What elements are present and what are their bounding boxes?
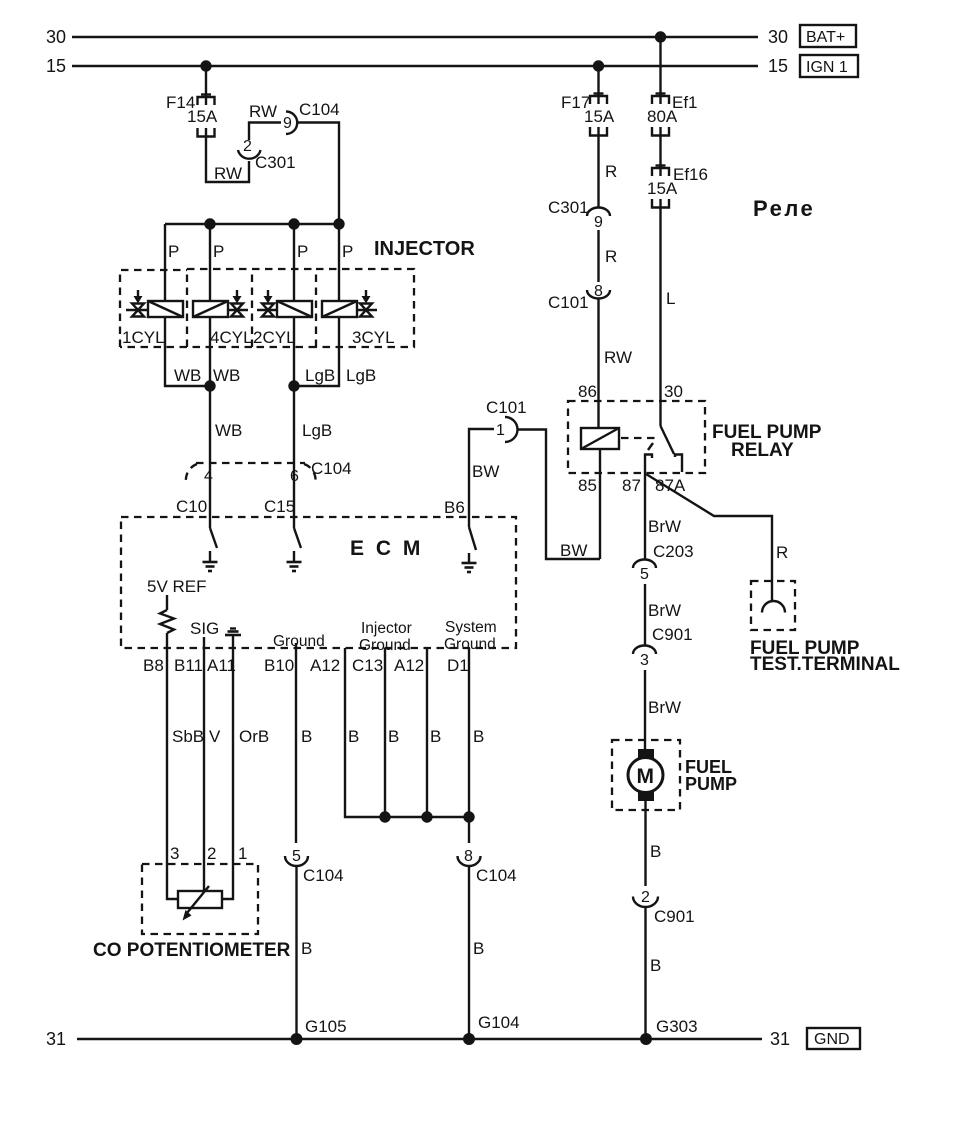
FUEL PUMP title [685,757,737,794]
svg-text:B: B [301,727,312,746]
svg-text:BW: BW [472,462,499,481]
svg-text:BrW: BrW [648,517,681,536]
svg-text:Ground: Ground [273,633,325,650]
wire bus to 3CYL, label P [339,224,353,301]
connector C104 pin 9 [283,100,340,134]
svg-text:P: P [168,242,179,261]
junction 2CYL [288,218,299,229]
svg-text:B6: B6 [444,498,465,517]
svg-text:30: 30 [664,382,683,401]
wire D1 (B) down through ground bus [468,648,470,843]
svg-text:R: R [605,247,617,266]
svg-text:A12: A12 [310,656,340,675]
svg-text:15: 15 [768,56,788,76]
svg-text:15A: 15A [187,107,218,126]
wire C104-8 to G104 [468,866,470,1039]
wire C901-3 to fuel pump, label BrW [645,670,681,751]
svg-text:G105: G105 [305,1017,347,1036]
injector 4CYL nozzle valve [228,290,248,317]
fuse Ef1 80A [647,93,698,136]
relay contact 87 terminal [645,455,652,474]
injector 1CYL dashed box [120,270,187,347]
ground (inside ECM, C15) [287,551,302,571]
svg-text:15: 15 [46,56,66,76]
svg-text:BrW: BrW [648,601,681,620]
svg-text:OrB: OrB [239,727,269,746]
wire rail15 to fuse F17 [597,66,599,104]
svg-text:A12: A12 [394,656,424,675]
svg-text:1CYL: 1CYL [122,328,165,347]
svg-text:RELAY: RELAY [731,440,794,461]
wire A12 (B) to injector ground bus [345,648,385,817]
wire SIG to pin B11 [203,637,205,648]
test terminal contact [762,601,785,613]
junction on rail 15 at F14 [200,60,211,71]
fuel pump relay dashed box [568,401,705,473]
switch at pin C10 [210,517,217,548]
wire C104-9 to injector supply bus [298,123,340,225]
svg-text:31: 31 [770,1029,790,1049]
injector ground bus [385,816,469,818]
wire B11 (V) to potentiometer pin 2 [203,648,205,891]
svg-text:B: B [650,956,661,975]
relay actuator dashed link [621,438,659,450]
wire C13 (B) to injector ground bus [384,648,386,817]
svg-text:WB: WB [213,366,240,385]
svg-text:C901: C901 [652,625,693,644]
injector 2CYL nozzle valve [257,290,277,317]
injector 1CYL nozzle valve [126,290,147,317]
svg-text:BW: BW [560,541,587,560]
svg-text:LgB: LgB [346,366,376,385]
wire rail30 to fuse Ef1 [659,37,661,104]
svg-text:30: 30 [768,27,788,47]
svg-text:C301: C301 [548,198,589,217]
injector 4CYL dashed box [187,269,252,347]
svg-text:C104: C104 [311,459,352,478]
FUEL PUMP TEST.TERMINAL title [750,638,900,675]
svg-text:CO POTENTIOMETER: CO POTENTIOMETER [93,940,291,961]
svg-text:D1: D1 [447,656,469,675]
svg-text:B: B [430,727,441,746]
resistor 5V REF [160,595,174,648]
svg-text:5: 5 [292,848,301,865]
connector C104 pin 5 [285,848,344,885]
junction WB [204,380,215,391]
svg-text:IGN 1: IGN 1 [806,59,848,76]
node 30 rail [46,27,788,47]
svg-text:C104: C104 [299,100,340,119]
svg-text:2CYL: 2CYL [253,328,296,347]
stub at pin B10 [295,643,297,648]
svg-text:PUMP: PUMP [685,774,737,794]
svg-text:B8: B8 [143,656,164,675]
svg-text:R: R [776,543,788,562]
wire Ef16 to relay pin 30, label L [661,207,676,426]
wire Ef1 to Ef16 [659,135,661,176]
svg-text:LgB: LgB [305,366,335,385]
svg-text:4: 4 [204,468,213,485]
switch at pin C15 [294,517,301,548]
wire bus to 4CYL, label P [210,224,224,301]
node 15 rail [46,56,788,76]
wire C101-1 to relay pin 85, label BW [517,430,600,561]
svg-text:RW: RW [214,164,242,183]
relay contact 87A terminal [675,455,682,473]
svg-text:INJECTOR: INJECTOR [374,238,475,260]
svg-text:P: P [213,242,224,261]
svg-text:GND: GND [814,1031,850,1048]
injector 3CYL nozzle valve [357,290,377,317]
wire bus to 2CYL, label P [294,224,308,301]
fuel pump dashed box [612,740,680,810]
svg-text:B10: B10 [264,656,294,675]
connector C901 pin 3 [633,625,693,669]
svg-text:B: B [473,939,484,958]
svg-text:30: 30 [46,27,66,47]
connector C101 pin 1 [486,398,527,442]
svg-text:Ef16: Ef16 [673,165,708,184]
svg-text:P: P [342,242,353,261]
connector C101 pin 8 [548,283,610,312]
connector C203 pin 5 [633,542,694,583]
ECM dashed box [121,517,516,648]
svg-text:C101: C101 [486,398,527,417]
injector 4CYL coil [193,301,228,317]
switch at pin B6 [469,517,476,550]
relay switch blade (30 to 87A) [661,426,675,454]
connector C301 pin 9 [548,198,610,231]
wire F17 to C301-9, label R [599,135,618,207]
CO potentiometer dashed box [142,864,258,934]
wire C301-9 to C101-8, label R [599,230,618,282]
svg-text:5V REF: 5V REF [147,577,207,596]
junction on rail 15 at F17 [593,60,604,71]
svg-text:B: B [301,939,312,958]
wire relay 87 branch to test terminal, label R [646,474,788,601]
BAT+ terminal box [800,25,856,47]
svg-text:M: M [637,765,655,788]
wire C101-8 to relay coil pin 86, label RW [599,298,633,428]
svg-text:3: 3 [170,844,179,863]
svg-text:TEST.TERMINAL: TEST.TERMINAL [750,654,900,675]
connector C901 pin 2 [633,889,695,926]
svg-text:A11: A11 [207,656,236,675]
FUEL PUMP RELAY title [712,422,822,461]
wire bus to 1CYL, label P [165,224,179,301]
wire C301 to C104 pin 9 [249,123,281,141]
svg-text:Injector: Injector [361,620,412,637]
wire C104-6 to ECM pin C15 [293,463,295,517]
svg-text:BrW: BrW [648,698,681,717]
fuse F14 15A [166,93,218,137]
fuse F17 15A [561,93,615,136]
wire 3CYL to LgB junction [294,317,339,386]
Injector Ground label [359,620,412,654]
svg-text:5: 5 [640,566,649,583]
wire 1CYL to WB junction [165,317,210,386]
injector 2CYL dashed box [252,269,316,347]
svg-text:1: 1 [496,422,505,439]
junction bus/C13 [379,811,390,822]
fuse Ef16 15A [647,165,708,208]
svg-text:C203: C203 [653,542,694,561]
svg-text:1: 1 [238,844,247,863]
junction bus/A12 [421,811,432,822]
wire A12-2 (B) to injector ground bus [426,648,428,817]
wire 2CYL down through junction [293,317,295,463]
ground G105 [291,1017,347,1045]
svg-text:SIG: SIG [190,619,219,638]
svg-text:8: 8 [464,848,473,865]
svg-text:B11: B11 [174,656,203,675]
svg-text:SbB: SbB [172,727,204,746]
ground (inside ECM, C10) [203,551,218,571]
svg-text:2: 2 [641,889,650,906]
svg-text:LgB: LgB [302,421,332,440]
svg-text:C104: C104 [476,866,517,885]
svg-text:31: 31 [46,1029,66,1049]
svg-text:V: V [209,727,221,746]
svg-text:9: 9 [283,115,292,132]
svg-text:B: B [650,842,661,861]
svg-text:C15: C15 [264,497,295,516]
relay coil [581,428,619,449]
svg-text:RW: RW [604,348,632,367]
wire F14 to connector C301 [206,136,249,182]
wire fuel pump to C901-2, label B [646,799,662,886]
wire C203-5 to C901-3, label BrW [645,584,681,646]
svg-text:L: L [666,289,675,308]
junction on rail 30 at Ef1 [655,31,666,42]
svg-text:15A: 15A [647,179,678,198]
svg-text:80A: 80A [647,107,678,126]
svg-text:C10: C10 [176,497,207,516]
svg-text:15A: 15A [584,107,615,126]
injector 3CYL coil [322,301,357,317]
injector 2CYL coil [277,301,312,317]
svg-text:9: 9 [594,214,603,231]
ground (inside ECM, B6) [462,553,477,572]
svg-text:E C M: E C M [350,537,423,560]
connector C301 pin 2 [238,138,296,172]
svg-text:87A: 87A [655,476,686,495]
svg-text:G104: G104 [478,1013,520,1032]
svg-text:RW: RW [249,102,277,121]
junction 3CYL [333,218,344,229]
svg-text:G303: G303 [656,1017,698,1036]
wire B8 (SbB) to potentiometer pin 3 [167,648,178,899]
svg-text:R: R [605,162,617,181]
svg-text:C104: C104 [303,866,344,885]
wire ECM B6 up to connector C101 pin 1, label BW [469,429,499,517]
potentiometer wiper arrow [183,886,210,921]
svg-text:BAT+: BAT+ [806,29,845,46]
junction LgB [288,380,299,391]
ground G303 [640,1017,698,1045]
junction bus/D1 [463,811,474,822]
svg-text:C901: C901 [654,907,695,926]
System Ground label [444,619,497,653]
wire 4CYL down through junction [209,317,211,463]
wire C901-2 to G303, label B [646,907,662,1039]
svg-text:B: B [388,727,399,746]
svg-text:C101: C101 [548,293,589,312]
svg-text:2: 2 [243,138,252,155]
svg-text:3CYL: 3CYL [352,328,395,347]
injector 3CYL dashed box [316,269,414,347]
svg-text:C301: C301 [255,153,296,172]
svg-text:4CYL: 4CYL [210,328,253,347]
wire A11 (OrB) to potentiometer pin 1 [222,648,233,899]
injector 1CYL coil [148,301,183,317]
svg-text:Реле: Реле [753,196,815,221]
GND terminal box [807,1028,860,1049]
internal connection symbol at pin A11 [225,629,241,649]
svg-text:3: 3 [640,652,649,669]
svg-text:86: 86 [578,382,597,401]
svg-text:85: 85 [578,476,597,495]
svg-text:C13: C13 [352,656,383,675]
potentiometer resistive element [178,891,222,908]
svg-text:WB: WB [215,421,242,440]
wire relay coil 85 down [599,449,601,559]
svg-text:P: P [297,242,308,261]
wire C104-5 to G105 [295,866,297,1039]
wire B10 (B) to connector C104 pin 5 [295,648,297,843]
wire C104-4 to ECM pin C10 [209,463,211,517]
svg-text:System: System [445,619,497,636]
svg-text:B: B [348,727,359,746]
fuel pump test terminal dashed box [751,581,795,630]
svg-text:WB: WB [174,366,201,385]
node 31 rail [46,1029,790,1049]
wire rail15 to fuse F14 [205,66,207,105]
svg-text:B: B [473,727,484,746]
fuel pump motor M [628,749,663,801]
svg-text:2: 2 [207,844,216,863]
junction 4CYL [204,218,215,229]
injector supply bus [165,223,339,225]
IGN 1 terminal box [800,55,858,77]
connector C104 inline (pins 4 and 6) [186,459,352,485]
connector C104 pin 8 [458,848,517,885]
wire relay 87 to C203-5, label BrW [645,473,681,560]
svg-text:87: 87 [622,476,641,495]
ground G104 [463,1013,520,1045]
